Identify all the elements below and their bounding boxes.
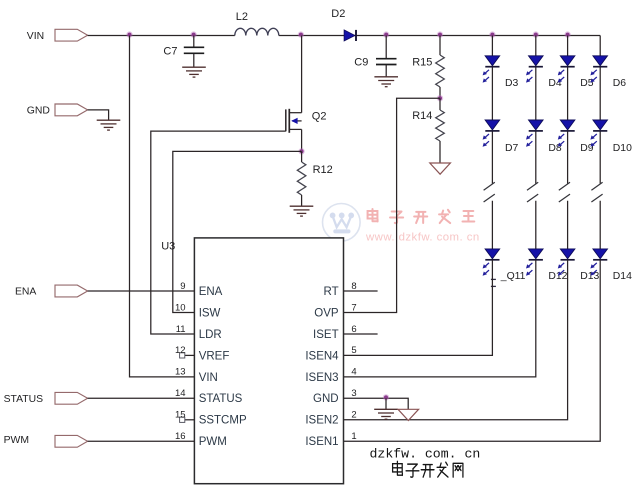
transistor Q2 xyxy=(286,109,302,152)
LED _Q11 xyxy=(483,249,500,276)
LED D9 xyxy=(558,120,575,147)
svg-text:7: 7 xyxy=(351,302,356,313)
wire LED string 2 upper xyxy=(535,36,537,261)
svg-text:U3: U3 xyxy=(161,241,175,253)
LED D4 xyxy=(526,56,543,83)
svg-text:C7: C7 xyxy=(163,45,177,57)
svg-text:VREF: VREF xyxy=(199,350,230,362)
wire main rail xyxy=(88,35,601,37)
resistor R12 xyxy=(301,151,303,162)
junction source / R12 xyxy=(298,148,304,154)
LED D3 xyxy=(483,56,500,83)
svg-text:VIN: VIN xyxy=(199,372,218,384)
wire ENA xyxy=(88,290,195,292)
svg-text:VIN: VIN xyxy=(27,31,44,42)
pin 14 STATUS xyxy=(175,388,243,405)
ground (R12) xyxy=(290,206,314,216)
svg-text:D7: D7 xyxy=(505,143,519,154)
wire STATUS xyxy=(88,397,195,399)
svg-text:D6: D6 xyxy=(613,78,627,89)
svg-text:SSTCMP: SSTCMP xyxy=(199,415,247,427)
svg-text:6: 6 xyxy=(351,324,356,335)
pin 9 ENA xyxy=(180,281,222,298)
LED D12 xyxy=(526,249,543,276)
tick marks column 1 xyxy=(491,278,496,280)
LED D14 xyxy=(590,249,607,276)
svg-text:D13: D13 xyxy=(580,271,599,282)
ground (input GND) xyxy=(97,120,121,130)
pin 6 ISET xyxy=(313,324,378,341)
svg-text:13: 13 xyxy=(175,367,186,378)
LED D5 xyxy=(558,56,575,83)
junction L2 / Q2 drain xyxy=(298,31,304,37)
port ENA xyxy=(55,285,88,297)
pin 8 RT xyxy=(323,281,377,298)
svg-text:_Q11: _Q11 xyxy=(500,271,526,282)
port VIN xyxy=(55,29,88,41)
svg-text:www. dzkfw. com. cn: www. dzkfw. com. cn xyxy=(365,232,480,244)
pin 5 ISEN4 xyxy=(305,345,356,362)
op-amp U3 IC body xyxy=(194,238,343,484)
ground (C7) xyxy=(182,67,206,77)
svg-text:5: 5 xyxy=(351,345,356,356)
resistor R15 xyxy=(439,36,441,56)
svg-text:R12: R12 xyxy=(313,164,333,176)
ground (GND pin hatched) xyxy=(374,409,398,419)
LED D13 xyxy=(558,249,575,276)
svg-text:10: 10 xyxy=(175,302,186,313)
svg-text:11: 11 xyxy=(176,324,186,335)
svg-text:GND: GND xyxy=(313,393,339,405)
pin 15 SSTCMP xyxy=(175,410,247,427)
capacitor C7 xyxy=(184,36,204,67)
inductor L2 xyxy=(235,28,279,35)
junction C9 xyxy=(383,31,389,37)
svg-text:16: 16 xyxy=(175,431,186,442)
wire drain xyxy=(301,36,303,113)
svg-text:4: 4 xyxy=(351,367,356,378)
wire GND pin drop xyxy=(385,398,387,409)
pin 7 OVP xyxy=(314,302,356,319)
break marks column 4 xyxy=(591,182,602,190)
diode D2 xyxy=(344,30,356,41)
wire OVP xyxy=(344,98,441,312)
ground (GND pin triangle) xyxy=(398,409,419,420)
svg-text:ISEN1: ISEN1 xyxy=(305,436,338,448)
svg-text:R14: R14 xyxy=(412,110,432,122)
wire ISEN1 xyxy=(344,260,601,441)
pin 4 ISEN3 xyxy=(305,367,356,384)
wire LED string 1 upper xyxy=(491,36,493,261)
svg-text:D14: D14 xyxy=(613,271,632,282)
pin 13 VIN xyxy=(175,367,218,384)
junction LED column 2 xyxy=(533,31,539,37)
svg-text:ISEN2: ISEN2 xyxy=(305,415,338,427)
svg-text:D10: D10 xyxy=(613,143,632,154)
watermark text 电子开发王 xyxy=(368,209,475,223)
svg-text:ISEN4: ISEN4 xyxy=(305,350,339,362)
break marks column 1 xyxy=(484,182,495,190)
pin 2 ISEN2 xyxy=(305,410,356,427)
svg-text:Q2: Q2 xyxy=(312,111,327,123)
break marks column 2 xyxy=(527,182,538,190)
pin 1 ISEN1 xyxy=(305,431,356,448)
svg-text:dzkfw. com. cn: dzkfw. com. cn xyxy=(370,447,481,462)
junction R15 xyxy=(437,31,443,37)
junction LED column 3 xyxy=(564,31,570,37)
LED D7 xyxy=(483,120,500,147)
svg-text:ENA: ENA xyxy=(199,286,223,298)
svg-text:ENA: ENA xyxy=(15,287,36,298)
wire PWM xyxy=(88,440,195,442)
wire gate to pin11 LDR xyxy=(151,131,286,334)
svg-text:8: 8 xyxy=(351,281,356,292)
wire ISEN2 xyxy=(344,260,568,420)
pin 16 PWM xyxy=(175,431,227,448)
svg-text:3: 3 xyxy=(351,388,356,399)
LED D8 xyxy=(526,120,543,147)
svg-text:C9: C9 xyxy=(354,56,368,68)
svg-text:STATUS: STATUS xyxy=(4,394,44,405)
footer text 电子开发网 xyxy=(393,461,463,477)
svg-text:2: 2 xyxy=(351,410,356,421)
svg-text:PWM: PWM xyxy=(4,435,29,446)
wire GND port xyxy=(88,110,109,120)
svg-text:L2: L2 xyxy=(236,11,248,23)
svg-text:D12: D12 xyxy=(548,271,567,282)
svg-text:D3: D3 xyxy=(505,78,519,89)
svg-text:GND: GND xyxy=(27,106,50,117)
junction GND pin xyxy=(383,394,389,400)
pin 12 VREF xyxy=(175,345,229,362)
resistor R14 xyxy=(439,98,441,110)
svg-text:14: 14 xyxy=(175,388,186,399)
svg-text:LDR: LDR xyxy=(199,329,222,341)
svg-text:D2: D2 xyxy=(331,8,345,20)
junction LED column 1 xyxy=(489,31,495,37)
svg-text:9: 9 xyxy=(180,281,185,292)
pin 3 GND xyxy=(313,388,357,405)
capacitor C9 xyxy=(376,36,397,77)
watermark logo circle xyxy=(323,204,361,242)
wire LED string 3 upper xyxy=(567,36,569,261)
junction R15/R14 xyxy=(437,95,443,101)
svg-text:15: 15 xyxy=(175,410,186,421)
wire LED string 4 upper xyxy=(599,36,601,261)
svg-text:ISW: ISW xyxy=(199,307,221,319)
pin 11 LDR xyxy=(176,324,222,341)
wire ISEN4 xyxy=(344,260,493,355)
svg-text:ISEN3: ISEN3 xyxy=(305,372,338,384)
port STATUS xyxy=(55,392,88,404)
svg-text:12: 12 xyxy=(175,345,186,356)
svg-text:1: 1 xyxy=(351,431,356,442)
wire ISEN3 xyxy=(344,260,536,377)
port GND xyxy=(55,104,88,116)
ground (C9) xyxy=(374,77,398,87)
LED D10 xyxy=(590,120,607,147)
ground (R14) xyxy=(430,163,451,174)
wire source to pin10 ISW xyxy=(173,151,302,312)
svg-text:ISET: ISET xyxy=(313,329,339,341)
LED D6 xyxy=(590,56,607,83)
wire VIN to pin13 xyxy=(130,36,195,377)
svg-text:RT: RT xyxy=(323,286,338,298)
junction C7 xyxy=(190,31,196,37)
pin 10 ISW xyxy=(175,302,221,319)
wire GND pin xyxy=(344,398,409,409)
junction VIN column xyxy=(126,31,132,37)
port PWM xyxy=(55,435,88,447)
svg-text:PWM: PWM xyxy=(199,436,227,448)
break marks column 3 xyxy=(559,182,570,190)
svg-text:STATUS: STATUS xyxy=(199,393,243,405)
svg-text:OVP: OVP xyxy=(314,307,339,319)
svg-text:R15: R15 xyxy=(412,56,432,68)
